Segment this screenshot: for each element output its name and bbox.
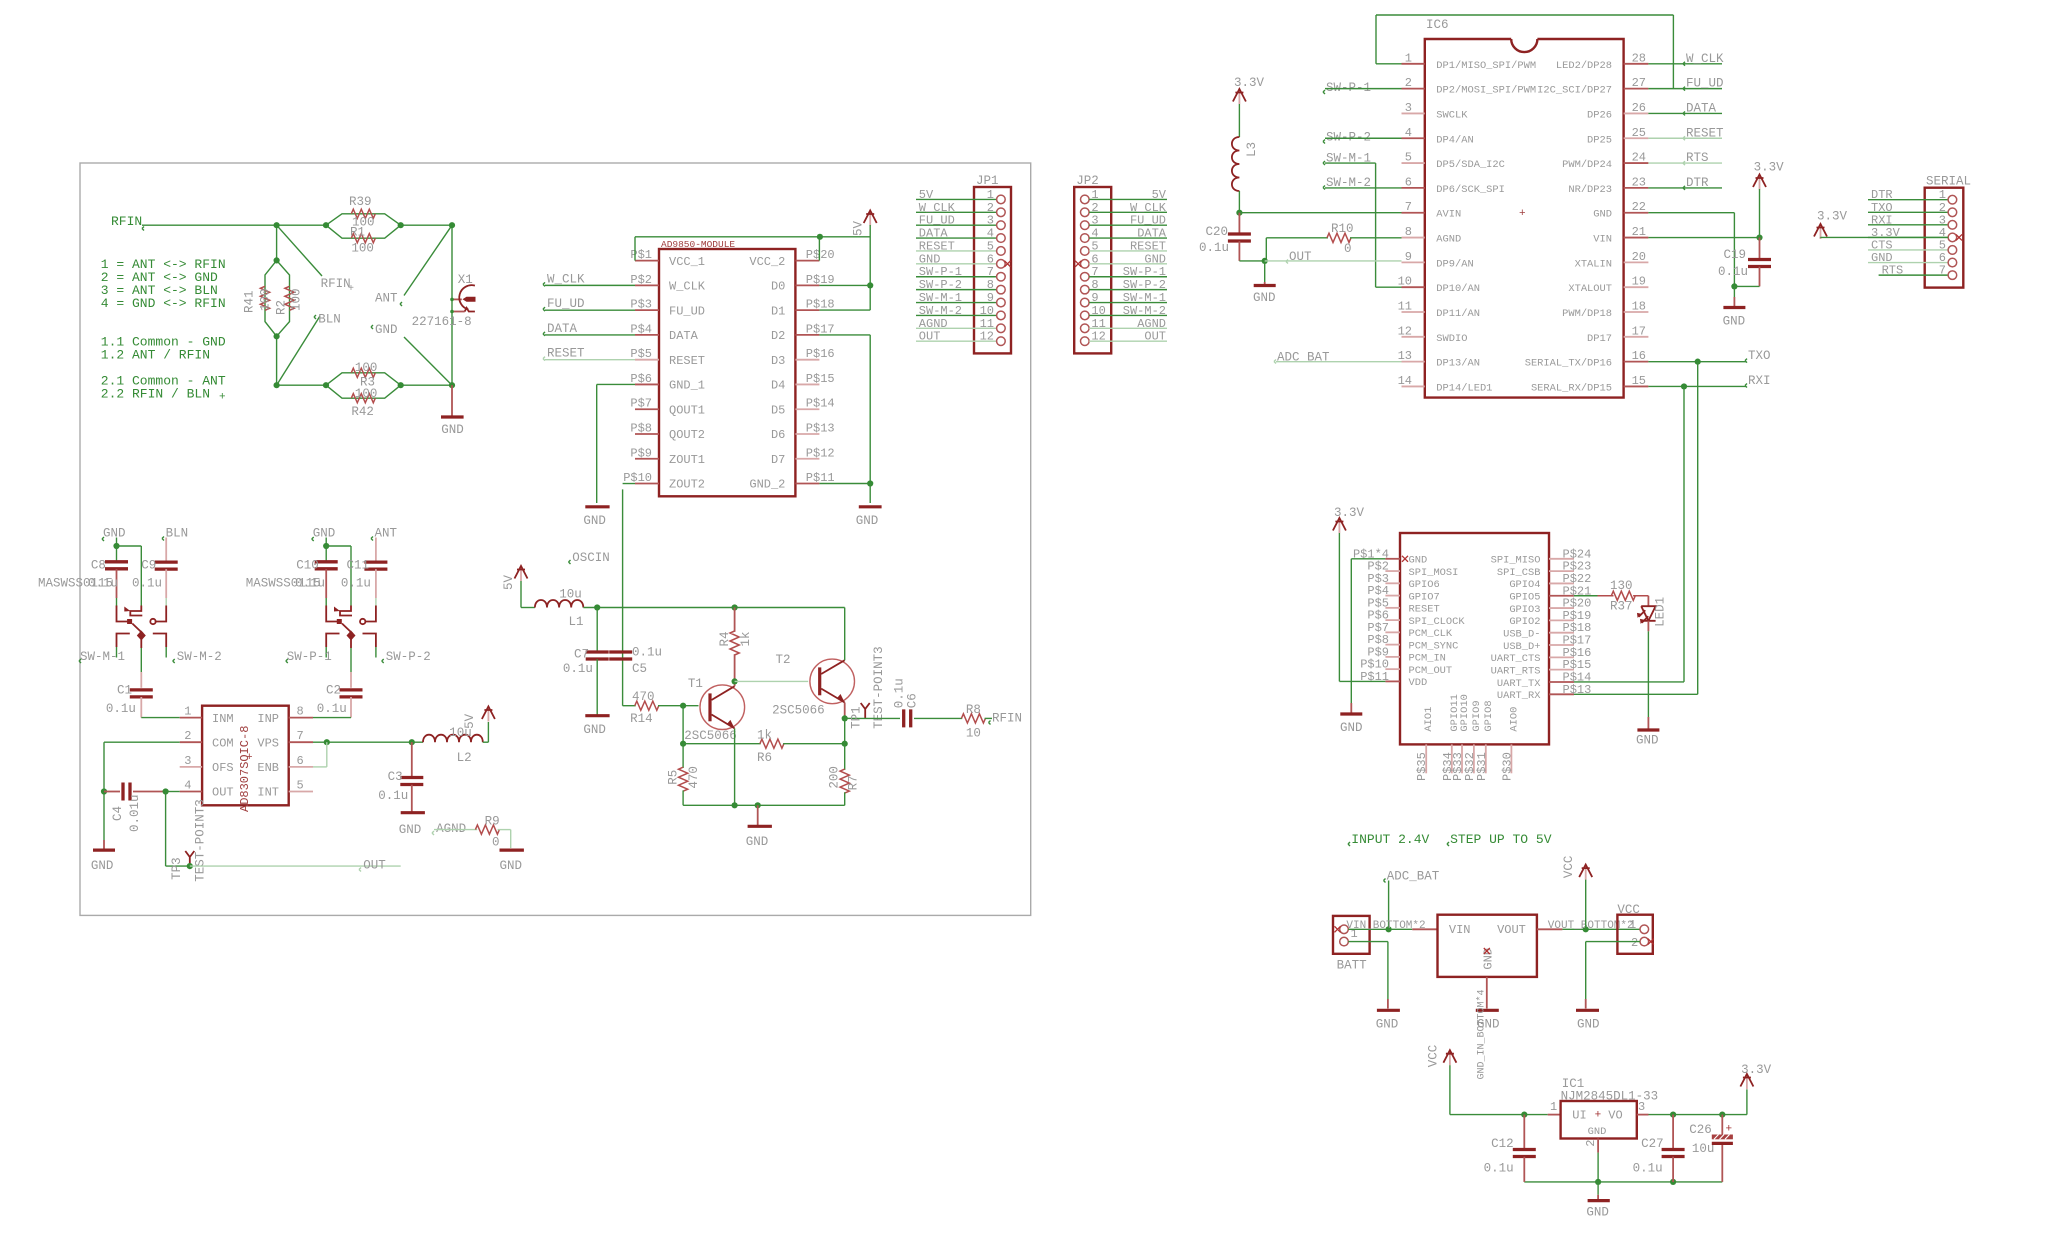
svg-text:PWM/DP18: PWM/DP18 [1562, 308, 1612, 320]
svg-text:0.01u: 0.01u [128, 794, 142, 832]
svg-text:PCM_OUT: PCM_OUT [1409, 665, 1453, 677]
svg-text:DP5/SDA_I2C: DP5/SDA_I2C [1436, 159, 1505, 171]
svg-text:W_CLK: W_CLK [669, 280, 706, 294]
svg-text:5V: 5V [852, 220, 866, 236]
svg-text:INM: INM [212, 712, 234, 726]
svg-text:GND: GND [1340, 721, 1363, 735]
svg-text:SW-P-1: SW-P-1 [287, 650, 332, 664]
svg-text:4 = GND <-> RFIN: 4 = GND <-> RFIN [101, 296, 226, 311]
svg-text:R2: R2 [275, 300, 289, 315]
svg-text:DP13/AN: DP13/AN [1436, 358, 1480, 370]
svg-text:6: 6 [1405, 175, 1412, 189]
svg-text:1: 1 [1629, 918, 1636, 932]
svg-text:25: 25 [1632, 126, 1646, 140]
svg-text:0.1u: 0.1u [341, 577, 371, 591]
svg-text:0.1u: 0.1u [893, 678, 907, 708]
svg-text:DP17: DP17 [1587, 333, 1612, 345]
svg-text:P$9: P$9 [630, 446, 652, 460]
svg-text:GPIO6: GPIO6 [1409, 579, 1440, 591]
svg-text:RFIN: RFIN [111, 214, 142, 229]
svg-text:ENB: ENB [257, 761, 279, 775]
svg-text:5: 5 [1405, 151, 1412, 165]
svg-text:0.1u: 0.1u [88, 577, 118, 591]
svg-text:12: 12 [1398, 324, 1412, 338]
svg-text:19: 19 [1632, 275, 1646, 289]
svg-text:1.2 ANT / RFIN: 1.2 ANT / RFIN [101, 348, 210, 363]
svg-text:D3: D3 [771, 354, 785, 368]
svg-text:2: 2 [1584, 1139, 1598, 1146]
svg-text:ADC_BAT: ADC_BAT [1387, 869, 1440, 883]
svg-text:0.1u: 0.1u [295, 577, 325, 591]
svg-text:TP3: TP3 [170, 857, 184, 880]
svg-text:SW-P-2: SW-P-2 [919, 278, 962, 292]
svg-text:18: 18 [1632, 300, 1646, 314]
svg-text:227161-8: 227161-8 [412, 315, 472, 329]
svg-text:UI: UI [1572, 1109, 1586, 1123]
svg-text:C11: C11 [347, 558, 370, 572]
svg-text:D2: D2 [771, 329, 785, 343]
svg-text:TP1: TP1 [850, 706, 864, 729]
svg-text:GPIO5: GPIO5 [1509, 592, 1540, 604]
svg-text:100: 100 [259, 288, 273, 311]
svg-text:0.1u: 0.1u [1199, 241, 1229, 255]
svg-text:+: + [1519, 208, 1526, 220]
svg-text:P$12: P$12 [806, 446, 835, 460]
svg-text:DP26: DP26 [1587, 109, 1612, 121]
svg-text:R8: R8 [966, 703, 981, 717]
svg-text:1: 1 [184, 705, 191, 719]
svg-text:0.1u: 0.1u [317, 702, 347, 716]
svg-text:AGND: AGND [919, 317, 948, 331]
svg-text:QOUT1: QOUT1 [669, 403, 705, 417]
svg-text:INPUT 2.4V: INPUT 2.4V [1351, 832, 1429, 847]
svg-text:SW-M-1: SW-M-1 [919, 291, 962, 305]
svg-text:PCM_SYNC: PCM_SYNC [1409, 640, 1459, 652]
svg-text:P$35: P$35 [1415, 752, 1429, 781]
svg-text:14: 14 [1398, 374, 1412, 388]
svg-text:+: + [348, 284, 354, 295]
svg-text:VCC: VCC [1427, 1045, 1441, 1068]
svg-text:C3: C3 [388, 770, 403, 784]
svg-text:5: 5 [297, 779, 304, 793]
svg-text:R42: R42 [351, 405, 374, 419]
svg-text:P$8: P$8 [630, 421, 652, 435]
svg-text:P$1: P$1 [630, 248, 652, 262]
svg-text:P$16: P$16 [806, 347, 835, 361]
svg-text:L3: L3 [1245, 142, 1259, 157]
svg-text:200: 200 [828, 766, 842, 789]
svg-text:3.3V: 3.3V [1234, 76, 1265, 90]
svg-text:2: 2 [1405, 76, 1412, 90]
svg-text:SPI_CLOCK: SPI_CLOCK [1409, 616, 1466, 628]
svg-text:D1: D1 [771, 304, 785, 318]
svg-text:SPI_MISO: SPI_MISO [1491, 555, 1541, 567]
svg-text:0.1u: 0.1u [1484, 1162, 1514, 1176]
svg-text:SW-M-1: SW-M-1 [1123, 291, 1166, 305]
svg-text:IC6: IC6 [1426, 18, 1449, 32]
svg-text:P$31: P$31 [1475, 752, 1489, 781]
svg-text:0: 0 [1344, 242, 1352, 256]
svg-text:3: 3 [1405, 101, 1412, 115]
svg-text:GND_1: GND_1 [669, 379, 705, 393]
svg-text:R41: R41 [243, 290, 257, 313]
svg-text:USB_D-: USB_D- [1503, 629, 1540, 641]
svg-text:INP: INP [257, 712, 279, 726]
svg-text:P$30: P$30 [1500, 752, 1514, 781]
svg-text:2SC5066: 2SC5066 [684, 729, 737, 743]
svg-text:TXO: TXO [1748, 349, 1771, 363]
svg-text:P$20: P$20 [806, 248, 835, 262]
svg-text:SPI_MOSI: SPI_MOSI [1409, 567, 1459, 579]
svg-text:DATA: DATA [1686, 101, 1717, 115]
svg-text:DATA: DATA [547, 322, 578, 336]
svg-text:20: 20 [1632, 250, 1646, 264]
svg-text:OUT: OUT [1144, 330, 1166, 344]
svg-text:FU_UD: FU_UD [547, 297, 585, 311]
svg-text:VIN: VIN [1449, 923, 1471, 937]
svg-text:10u: 10u [1692, 1142, 1715, 1156]
svg-text:BATT: BATT [1337, 958, 1368, 972]
svg-text:3.3V: 3.3V [1741, 1063, 1772, 1077]
svg-text:UART_RTS: UART_RTS [1491, 665, 1541, 677]
svg-text:LED1: LED1 [1654, 597, 1668, 627]
svg-text:C10: C10 [296, 558, 319, 572]
svg-text:P$13: P$13 [806, 421, 835, 435]
svg-text:GND: GND [583, 514, 606, 528]
svg-text:ZOUT2: ZOUT2 [669, 478, 705, 492]
svg-text:28: 28 [1632, 51, 1646, 65]
svg-text:AD9850-MODULE: AD9850-MODULE [661, 239, 735, 250]
svg-text:PWM/DP24: PWM/DP24 [1562, 159, 1612, 171]
svg-text:D4: D4 [771, 379, 785, 393]
svg-text:26: 26 [1632, 101, 1646, 115]
svg-text:W_CLK: W_CLK [547, 272, 585, 286]
svg-text:11: 11 [1091, 317, 1105, 331]
svg-text:DP1/MISO_SPI/PWM: DP1/MISO_SPI/PWM [1436, 60, 1536, 72]
svg-text:RESET: RESET [1686, 126, 1724, 140]
svg-text:VDD: VDD [1409, 677, 1428, 689]
svg-text:GND: GND [1577, 1018, 1600, 1032]
svg-text:FU_UD: FU_UD [1686, 77, 1724, 91]
svg-text:7: 7 [1939, 264, 1946, 278]
svg-text:R7: R7 [847, 775, 861, 790]
svg-text:3.3V: 3.3V [1754, 161, 1785, 175]
svg-text:SW-M-2: SW-M-2 [177, 650, 222, 664]
svg-text:7: 7 [1091, 265, 1098, 279]
svg-text:SERAL_RX/DP15: SERAL_RX/DP15 [1531, 382, 1612, 394]
svg-text:C12: C12 [1491, 1137, 1514, 1151]
svg-text:7: 7 [1405, 200, 1412, 214]
svg-text:10u: 10u [559, 588, 582, 602]
svg-text:SW-P-2: SW-P-2 [1326, 130, 1371, 144]
svg-text:0.1u: 0.1u [378, 789, 408, 803]
svg-text:UART_RX: UART_RX [1497, 690, 1541, 702]
svg-text:1k: 1k [757, 729, 772, 743]
svg-text:8: 8 [1405, 225, 1412, 239]
svg-text:D6: D6 [771, 428, 785, 442]
svg-text:VPS: VPS [257, 736, 279, 750]
svg-text:AIO1: AIO1 [1423, 707, 1435, 732]
svg-text:2: 2 [1631, 936, 1638, 950]
svg-text:470: 470 [687, 766, 701, 789]
svg-text:SW-P-2: SW-P-2 [386, 650, 431, 664]
svg-text:ANT: ANT [375, 291, 398, 305]
svg-text:I2C_SCI/DP27: I2C_SCI/DP27 [1537, 85, 1612, 97]
svg-text:C4: C4 [111, 806, 125, 821]
svg-text:GPIO3: GPIO3 [1509, 604, 1540, 616]
svg-text:GND_2: GND_2 [749, 478, 785, 492]
svg-text:100: 100 [290, 288, 304, 311]
svg-text:SW-P-2: SW-P-2 [1123, 278, 1166, 292]
svg-text:ANT: ANT [375, 527, 398, 541]
svg-text:SERIAL_TX/DP16: SERIAL_TX/DP16 [1525, 358, 1612, 370]
svg-text:DP2/MOSI_SPI/PWM: DP2/MOSI_SPI/PWM [1436, 85, 1536, 97]
svg-text:DP11/AN: DP11/AN [1436, 308, 1480, 320]
svg-text:130: 130 [1610, 579, 1633, 593]
svg-text:0.1u: 0.1u [1633, 1162, 1663, 1176]
svg-text:GND: GND [500, 859, 523, 873]
svg-text:10: 10 [1091, 304, 1105, 318]
svg-text:+: + [219, 392, 226, 404]
svg-text:4: 4 [184, 779, 191, 793]
svg-text:C8: C8 [91, 558, 106, 572]
svg-text:GND: GND [746, 835, 769, 849]
svg-text:GPIO4: GPIO4 [1509, 579, 1540, 591]
svg-text:11: 11 [1398, 300, 1412, 314]
svg-text:0.1u: 0.1u [106, 702, 136, 716]
svg-text:NR/DP23: NR/DP23 [1568, 184, 1612, 196]
svg-text:4: 4 [1405, 126, 1412, 140]
svg-text:0.1u: 0.1u [563, 662, 593, 676]
svg-text:W_CLK: W_CLK [1686, 52, 1724, 66]
svg-text:RESET: RESET [547, 347, 585, 361]
svg-text:AD8307SOIC-8: AD8307SOIC-8 [238, 726, 252, 812]
svg-text:SW-P-1: SW-P-1 [1326, 81, 1371, 95]
svg-text:FU_UD: FU_UD [669, 304, 705, 318]
svg-text:D5: D5 [771, 403, 785, 417]
svg-text:SW-M-1: SW-M-1 [80, 650, 125, 664]
svg-text:7: 7 [987, 265, 994, 279]
svg-text:12: 12 [1091, 330, 1105, 344]
svg-text:XTALOUT: XTALOUT [1568, 283, 1612, 295]
svg-text:C7: C7 [574, 648, 589, 662]
svg-text:RESET: RESET [669, 354, 705, 368]
svg-text:GPIO7: GPIO7 [1409, 591, 1440, 603]
svg-text:24: 24 [1632, 151, 1646, 165]
svg-text:8: 8 [297, 705, 304, 719]
svg-text:GND: GND [1586, 1206, 1609, 1220]
svg-text:GND: GND [1376, 1018, 1399, 1032]
svg-text:SWDIO: SWDIO [1436, 333, 1467, 345]
svg-text:ZOUT1: ZOUT1 [669, 453, 705, 467]
svg-text:23: 23 [1632, 175, 1646, 189]
svg-text:R37: R37 [1610, 600, 1633, 614]
svg-text:C27: C27 [1641, 1137, 1664, 1151]
svg-text:AGND: AGND [1137, 317, 1166, 331]
svg-text:VOUT_BOTTOM*2: VOUT_BOTTOM*2 [1548, 920, 1634, 932]
svg-text:XTALIN: XTALIN [1575, 258, 1612, 270]
svg-text:OUT: OUT [363, 859, 386, 873]
svg-text:9: 9 [987, 291, 994, 305]
svg-text:DP6/SCK_SPI: DP6/SCK_SPI [1436, 184, 1505, 196]
svg-text:T1: T1 [688, 677, 703, 691]
svg-text:USB_D+: USB_D+ [1503, 641, 1540, 653]
svg-text:DP10/AN: DP10/AN [1436, 283, 1480, 295]
svg-text:BLN: BLN [318, 313, 341, 327]
svg-text:11: 11 [980, 317, 994, 331]
svg-text:C9: C9 [141, 558, 156, 572]
svg-text:D0: D0 [771, 280, 785, 294]
svg-text:GND: GND [313, 527, 336, 541]
svg-text:DP9/AN: DP9/AN [1436, 258, 1473, 270]
svg-text:VO: VO [1608, 1109, 1622, 1123]
svg-text:SWCLK: SWCLK [1436, 109, 1468, 121]
svg-text:GND: GND [91, 859, 114, 873]
svg-text:0.1u: 0.1u [1718, 265, 1748, 279]
svg-text:UART_TX: UART_TX [1497, 678, 1541, 690]
svg-text:21: 21 [1632, 225, 1646, 239]
svg-text:8: 8 [987, 278, 994, 292]
svg-text:GPIO8: GPIO8 [1483, 700, 1495, 731]
svg-text:R5: R5 [667, 770, 681, 785]
svg-text:JP1: JP1 [976, 174, 999, 188]
svg-text:GND: GND [1409, 555, 1428, 567]
svg-text:RFIN: RFIN [321, 277, 351, 291]
svg-text:DATA: DATA [669, 329, 699, 343]
svg-text:STEP UP TO 5V: STEP UP TO 5V [1450, 832, 1552, 847]
svg-text:GND: GND [583, 723, 606, 737]
svg-text:R6: R6 [757, 751, 772, 765]
svg-text:C6: C6 [906, 693, 920, 708]
svg-text:P$7: P$7 [630, 397, 652, 411]
svg-text:RFIN: RFIN [992, 711, 1022, 725]
svg-text:R10: R10 [1331, 222, 1354, 236]
svg-text:OUT: OUT [919, 330, 941, 344]
svg-text:INT: INT [257, 786, 279, 800]
svg-text:100: 100 [351, 242, 374, 256]
svg-text:AGND: AGND [1436, 234, 1461, 246]
svg-text:GND: GND [399, 823, 422, 837]
svg-text:8: 8 [1091, 278, 1098, 292]
svg-text:DP14/LED1: DP14/LED1 [1436, 382, 1492, 394]
svg-text:1k: 1k [739, 631, 753, 646]
svg-text:R1: R1 [350, 226, 365, 240]
svg-text:OSCIN: OSCIN [572, 551, 610, 565]
svg-text:GND: GND [1482, 948, 1496, 970]
svg-text:GND: GND [1253, 291, 1276, 305]
svg-text:3: 3 [184, 754, 191, 768]
svg-text:L1: L1 [569, 615, 584, 629]
svg-text:SW-P-1: SW-P-1 [919, 265, 962, 279]
svg-text:RTS: RTS [1882, 264, 1904, 278]
svg-text:R4: R4 [718, 631, 732, 646]
svg-text:VCC: VCC [1562, 856, 1576, 879]
svg-text:2: 2 [184, 729, 191, 743]
svg-text:5V: 5V [502, 574, 516, 590]
svg-text:12: 12 [980, 330, 994, 344]
svg-text:C5: C5 [632, 662, 647, 676]
svg-text:GND: GND [1588, 1126, 1607, 1138]
svg-text:C19: C19 [1723, 248, 1746, 262]
svg-text:RXI: RXI [1748, 374, 1771, 388]
svg-text:RESET: RESET [1409, 604, 1440, 616]
svg-text:9: 9 [1405, 250, 1412, 264]
svg-text:COM: COM [212, 736, 234, 750]
svg-text:OUT: OUT [1289, 250, 1312, 264]
svg-text:3.3V: 3.3V [1334, 506, 1365, 520]
svg-text:R14: R14 [630, 712, 653, 726]
svg-text:0.1u: 0.1u [632, 646, 662, 660]
svg-text:T2: T2 [776, 653, 791, 667]
svg-text:0: 0 [492, 836, 500, 850]
svg-text:VIN_BOTTOM*2: VIN_BOTTOM*2 [1346, 920, 1425, 932]
svg-text:GND: GND [441, 423, 464, 437]
svg-text:SERIAL: SERIAL [1926, 175, 1971, 189]
svg-text:C26: C26 [1689, 1123, 1712, 1137]
svg-text:RTS: RTS [1686, 151, 1709, 165]
svg-text:6: 6 [297, 754, 304, 768]
svg-text:GPIO10: GPIO10 [1459, 694, 1471, 731]
svg-text:7: 7 [297, 729, 304, 743]
svg-text:L2: L2 [457, 751, 472, 765]
svg-text:3.3V: 3.3V [1817, 209, 1848, 223]
svg-text:C2: C2 [326, 683, 341, 697]
svg-text:10: 10 [966, 727, 981, 741]
svg-text:BLN: BLN [166, 527, 189, 541]
svg-text:GND: GND [856, 514, 879, 528]
svg-text:P$15: P$15 [806, 372, 835, 386]
svg-text:OUT: OUT [212, 786, 234, 800]
svg-text:D7: D7 [771, 453, 785, 467]
svg-text:VIN: VIN [1593, 234, 1612, 246]
svg-text:TEST-POINT3: TEST-POINT3 [872, 646, 886, 729]
svg-text:AIO0: AIO0 [1508, 707, 1520, 732]
svg-text:1: 1 [1550, 1100, 1557, 1114]
svg-text:SW-P-1: SW-P-1 [1123, 265, 1166, 279]
svg-text:10: 10 [980, 304, 994, 318]
svg-text:GND: GND [1636, 734, 1659, 748]
svg-text:JP2: JP2 [1076, 174, 1099, 188]
svg-text:100: 100 [355, 361, 378, 375]
svg-text:C1: C1 [117, 683, 132, 697]
svg-text:R9: R9 [485, 815, 500, 829]
svg-text:100: 100 [355, 387, 378, 401]
svg-text:PCM_IN: PCM_IN [1409, 653, 1446, 665]
svg-text:DP4/AN: DP4/AN [1436, 134, 1473, 146]
svg-text:22: 22 [1632, 200, 1646, 214]
svg-text:GND: GND [1723, 315, 1746, 329]
svg-text:+: + [246, 752, 253, 764]
svg-text:DTR: DTR [1686, 176, 1709, 190]
svg-text:3: 3 [1638, 1100, 1645, 1114]
svg-text:QOUT2: QOUT2 [669, 428, 705, 442]
svg-text:P$14: P$14 [806, 397, 835, 411]
svg-text:DP25: DP25 [1587, 134, 1612, 146]
svg-text:SPI_CSB: SPI_CSB [1497, 567, 1541, 579]
svg-text:VCC_2: VCC_2 [749, 255, 785, 269]
svg-text:AVIN: AVIN [1436, 209, 1461, 221]
svg-text:UART_CTS: UART_CTS [1491, 653, 1541, 665]
svg-text:+: + [1726, 1124, 1733, 1136]
svg-text:27: 27 [1632, 76, 1646, 90]
svg-text:0.1u: 0.1u [132, 577, 162, 591]
svg-text:15: 15 [1632, 374, 1646, 388]
svg-text:LED2/DP28: LED2/DP28 [1556, 60, 1612, 72]
svg-text:1: 1 [1405, 51, 1412, 65]
svg-text:GND_IN_BOTTOM*4: GND_IN_BOTTOM*4 [1476, 989, 1488, 1079]
svg-text:17: 17 [1632, 324, 1646, 338]
svg-text:R39: R39 [349, 195, 372, 209]
